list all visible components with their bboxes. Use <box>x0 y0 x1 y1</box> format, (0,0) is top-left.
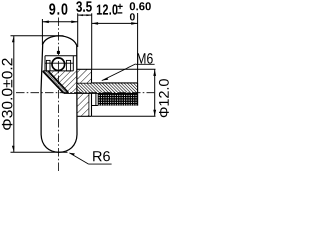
text 9.0 <box>49 3 67 14</box>
tolerance lower 0 <box>130 13 135 20</box>
3.5 right extension line <box>91 13 93 69</box>
stud top edge <box>92 82 138 84</box>
cone edge B <box>48 71 68 93</box>
text 12.0 <box>97 4 118 14</box>
12.0 right extension line <box>137 13 139 83</box>
dia30 top extension line <box>11 35 64 37</box>
ball equator line <box>45 62 73 64</box>
band top border <box>77 82 92 84</box>
hub lower sparse hatch <box>77 93 89 116</box>
hub inner line <box>88 93 90 116</box>
text dia12.0 <box>159 79 169 117</box>
dia12 top extension line <box>92 68 156 70</box>
text R6 <box>93 151 110 161</box>
recess left wall <box>44 56 46 71</box>
thread root bottom edge <box>92 105 98 107</box>
vertical centerline <box>57 18 59 172</box>
dia30 bottom extension line <box>11 151 68 153</box>
12.0 dimension line <box>92 22 138 24</box>
tolerance upper 0.60 <box>130 2 151 10</box>
M6 leader <box>102 64 136 81</box>
text dia30.0 tol <box>2 58 13 130</box>
cone band dense hatch <box>43 71 69 93</box>
R6 underline <box>89 163 112 165</box>
recess top edge <box>45 55 77 57</box>
3.5 / 9.0 shared extension line <box>77 13 79 47</box>
dia12 bottom extension line <box>92 115 156 117</box>
ball <box>52 58 65 71</box>
text M6 <box>137 53 153 64</box>
tolerance plus sign <box>117 4 122 9</box>
stud section upper half <box>92 83 138 93</box>
hatch bottom border <box>64 92 138 94</box>
horizontal centerline <box>16 92 154 94</box>
hub bottom edge <box>77 115 92 117</box>
hub upper sparse hatch <box>77 69 92 83</box>
dia30 dimension line <box>13 36 15 153</box>
recess right wall <box>72 56 74 71</box>
hub right face upper <box>91 69 93 83</box>
right bracket detail <box>66 60 70 71</box>
left bracket detail <box>46 60 50 71</box>
3.5 dimension line <box>78 14 92 16</box>
9.0 dimension line <box>42 21 77 23</box>
9.0 left extension line <box>41 19 43 45</box>
thread start line <box>95 93 97 105</box>
M6 underline <box>136 63 155 65</box>
knob cone-seat section hatch <box>43 71 77 93</box>
thread knurl block <box>98 93 138 105</box>
knob capsule outline <box>41 36 77 152</box>
recess bottom edge <box>43 70 74 72</box>
hub top edge <box>77 68 92 70</box>
text 3.5 <box>76 1 92 12</box>
hub right face lower <box>91 93 93 116</box>
stud end face <box>137 83 139 106</box>
dia12 dimension line <box>154 69 156 116</box>
tolerance minus sign <box>117 12 122 14</box>
screw shank band inside hub <box>77 83 92 93</box>
R6 leader <box>69 153 88 164</box>
cone edge A <box>43 71 64 93</box>
centerline square marker <box>57 51 60 54</box>
